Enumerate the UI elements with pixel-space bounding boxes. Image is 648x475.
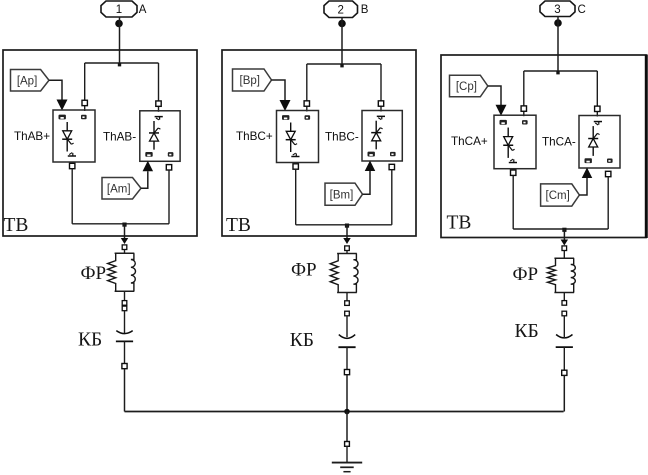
wire [Cm] to gate <box>579 178 587 195</box>
port square a of ThC- bottom <box>606 171 611 176</box>
svg-text:ТВ: ТВ <box>447 213 472 234</box>
svg-text:ThAB-: ThAB- <box>103 131 136 144</box>
wire to ground symbol <box>346 446 348 462</box>
arrowhead into ThC+ gate <box>496 105 507 116</box>
wire FR to port phase C <box>563 293 565 301</box>
wire [Ap] to gate <box>49 80 62 100</box>
port square KB output phase A <box>122 364 127 369</box>
wire ThC- to junction <box>607 177 609 230</box>
svg-text:ФР: ФР <box>81 263 107 284</box>
svg-text:A: A <box>139 4 147 16</box>
thyristor block ThCA- <box>579 116 620 169</box>
subsystem box TB phase A <box>3 50 197 236</box>
port square FR input phase B <box>345 246 350 251</box>
filter reactor FR phase A <box>108 253 136 291</box>
From tag [Bm] <box>325 183 363 205</box>
node dot under port 3 <box>554 19 562 27</box>
arrowhead into FR phase A <box>121 238 129 244</box>
wire bus to ground <box>346 412 348 442</box>
svg-text:ТВ: ТВ <box>226 215 251 236</box>
svg-text:ThBC+: ThBC+ <box>236 130 273 143</box>
neutral bus wire <box>125 411 564 413</box>
wire [Cp] to gate <box>488 86 501 105</box>
port square a of ThC+ <box>521 106 526 111</box>
port square ground <box>345 442 350 447</box>
svg-text:ТВ: ТВ <box>4 215 29 236</box>
svg-text:ФР: ФР <box>291 260 317 281</box>
wire port 1 to splitter <box>119 17 121 63</box>
arrowhead into ThA+ gate <box>57 100 68 111</box>
svg-text:C: C <box>578 4 586 16</box>
bottom wire phase A <box>72 223 169 225</box>
wire to capacitor phase C <box>563 316 565 337</box>
svg-text:ФР: ФР <box>513 264 539 285</box>
wire [Am] to gate <box>141 171 148 188</box>
thyristor block ThBC+ <box>277 111 319 163</box>
ground symbol <box>332 462 362 464</box>
wire ThB- to junction <box>391 170 393 225</box>
arrowhead into ThB+ gate <box>280 100 291 111</box>
wire junction to box edge phase B <box>346 225 348 238</box>
junction tick phase A <box>118 63 121 66</box>
port square FR input phase C <box>562 246 567 251</box>
wire KB to bus phase B <box>346 375 348 412</box>
wire port 2 to splitter <box>341 18 343 65</box>
node dot under port 1 <box>115 20 123 28</box>
subsystem box TB phase C <box>441 55 646 238</box>
svg-text:[Am]: [Am] <box>107 183 131 195</box>
svg-text:ThCA+: ThCA+ <box>451 135 488 148</box>
svg-text:[Bp]: [Bp] <box>240 75 260 87</box>
wire to FR phase A <box>124 250 126 254</box>
wire to FR phase B <box>346 251 348 254</box>
port square k of ThC+ bottom <box>511 170 516 175</box>
junction square phase C <box>562 228 566 232</box>
port square k of ThB+ bottom <box>293 164 298 169</box>
capacitor KB phase C <box>556 335 573 348</box>
arrowhead into FR phase C <box>561 240 569 246</box>
arrowhead into ThC- gate <box>582 168 593 179</box>
wire ThC+ to junction <box>512 175 514 229</box>
svg-text:КБ: КБ <box>78 330 102 351</box>
capacitor KB phase A <box>116 331 133 342</box>
wire [Bp] to gate <box>272 80 286 101</box>
wire capacitor to port phase A <box>124 341 126 363</box>
thyristor block ThCA+ <box>494 115 536 169</box>
splitter wire phase A <box>85 62 159 64</box>
splitter wire phase B <box>307 63 381 65</box>
svg-text:[Cm]: [Cm] <box>546 190 570 202</box>
node dot under port 2 <box>338 20 346 28</box>
svg-text:[Ap]: [Ap] <box>17 75 37 87</box>
port square FR output phase C <box>562 301 567 306</box>
port square KB input phase A <box>122 306 127 311</box>
bottom wire phase B <box>296 224 392 226</box>
port square a of ThB- bottom <box>389 164 394 169</box>
capacitor KB phase B <box>338 335 355 348</box>
wire to capacitor phase B <box>346 316 348 337</box>
port square k of ThC- <box>595 106 600 111</box>
port square KB input phase B <box>345 311 350 316</box>
filter reactor FR phase C <box>548 258 576 292</box>
arrowhead into FR phase B <box>343 238 351 244</box>
input port 3 (phase C) <box>540 1 575 17</box>
svg-text:B: B <box>361 4 369 16</box>
port square FR output phase B <box>345 301 350 306</box>
wire FR to port phase A <box>124 291 126 300</box>
wire ThA- to junction <box>168 170 170 224</box>
wire junction to box edge phase C <box>563 229 565 240</box>
wire to capacitor phase A <box>124 311 126 333</box>
From tag [Ap] <box>11 70 50 92</box>
svg-text:[Bm]: [Bm] <box>330 189 354 201</box>
svg-text:ThCA-: ThCA- <box>542 135 576 148</box>
junction tick phase C <box>556 71 559 74</box>
splitter wire phase C <box>524 70 598 72</box>
svg-text:КБ: КБ <box>515 321 539 342</box>
wire capacitor to port phase C <box>563 347 565 370</box>
port square KB output phase C <box>562 370 567 375</box>
thyristor block ThAB+ <box>53 110 95 162</box>
wire ThA+ to junction <box>71 169 73 224</box>
From tag [Cm] <box>541 184 580 206</box>
port square a of ThA- bottom <box>166 165 171 170</box>
arrowhead into ThA- gate <box>143 161 154 172</box>
From tag [Am] <box>102 178 141 200</box>
wire FR to port phase B <box>346 293 348 301</box>
wire [Bm] to gate <box>363 171 371 194</box>
port square a of ThB+ <box>304 101 309 106</box>
svg-text:1: 1 <box>116 4 122 16</box>
svg-text:ThAB+: ThAB+ <box>14 130 50 143</box>
arrowhead into ThB- gate <box>365 161 376 172</box>
bottom wire phase C <box>513 228 608 230</box>
port square FR output phase A <box>122 301 127 306</box>
bus junction dot <box>344 409 350 415</box>
junction square phase A <box>122 223 126 227</box>
wire KB to bus phase C <box>563 375 565 411</box>
wire ThB+ to junction <box>295 169 297 225</box>
subsystem box TB phase B <box>222 50 416 236</box>
svg-text:КБ: КБ <box>290 330 314 351</box>
wire junction to box edge phase A <box>124 224 126 238</box>
svg-text:2: 2 <box>338 4 344 16</box>
wire port 3 to splitter <box>557 17 559 72</box>
wire KB to bus phase A <box>124 369 126 412</box>
input port 2 (phase B) <box>324 1 358 18</box>
wire capacitor to port phase B <box>346 347 348 369</box>
thyristor block ThAB- <box>140 111 180 162</box>
filter reactor FR phase B <box>330 254 358 293</box>
junction tick phase B <box>340 64 343 67</box>
input port 1 (phase A) <box>101 1 137 17</box>
From tag [Cp] <box>450 75 488 97</box>
port square k of ThA+ bottom <box>70 163 75 168</box>
port square k of ThA- <box>156 101 161 106</box>
thick right edge of TB box phase C <box>645 55 648 239</box>
port square k of ThB- <box>378 101 383 106</box>
junction square phase B <box>345 224 349 228</box>
svg-text:3: 3 <box>554 4 560 16</box>
wire to FR phase C <box>563 251 565 259</box>
thyristor block ThBC- <box>362 111 402 162</box>
From tag [Bp] <box>233 69 272 91</box>
port square a of ThA+ <box>82 100 87 105</box>
port square FR input phase A <box>122 245 127 250</box>
port square KB input phase C <box>562 311 567 316</box>
svg-text:ThBC-: ThBC- <box>325 131 359 144</box>
port square KB output phase B <box>344 370 349 375</box>
svg-text:[Cp]: [Cp] <box>456 81 477 93</box>
